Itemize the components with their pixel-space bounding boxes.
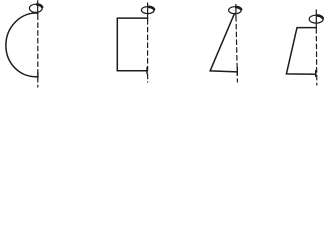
rotation arrowhead 4 [317,15,322,18]
axis 2 top solid segment [147,3,149,19]
axis 1 dashed line [37,15,39,87]
rotation symbol ellipse 3 [229,7,242,14]
trapezoid outline [286,28,316,75]
axis 2 dashed line [147,20,149,83]
figure 3: right triangle about vertical axis [210,5,241,83]
rotation symbol ellipse 2 [141,7,154,14]
tick at rectangle bottom on axis [146,67,148,73]
semicircle arc [6,13,38,77]
figure 2: rectangle about vertical axis [117,3,154,82]
rectangle outline [117,18,147,71]
axis 4 dashed line [315,29,318,86]
tick at trapezoid bottom on axis [315,71,317,77]
figure 4: right trapezoid about vertical axis [286,10,323,85]
axis 4 top solid segment [315,10,317,28]
tick at triangle bottom on axis [236,68,238,75]
triangle hypotenuse [210,14,234,71]
axis 3 top solid segment [235,5,237,17]
tick at arc bottom on axis [37,73,39,78]
rotation arrowhead 3 [236,7,241,9]
rotation symbol ellipse 1 [29,4,42,12]
rotation symbol ellipse 4 [309,15,323,23]
rotation arrowhead 2 [149,7,154,9]
axis 3 dashed line [236,17,237,83]
rotation arrowhead 1 [37,4,42,7]
axis 1 top solid segment [37,1,39,15]
triangle bottom edge [210,71,237,72]
figure 1: semicircle about vertical axis [6,1,42,87]
